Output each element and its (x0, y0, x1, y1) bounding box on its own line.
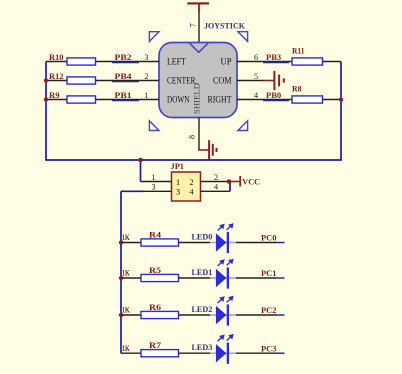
wire bus to R7 (121, 352, 142, 354)
power port VCC (229, 176, 241, 186)
wire PB2 row (46, 62, 159, 63)
corner marker bottom-left (149, 121, 159, 131)
LED LED1 (210, 260, 236, 289)
wire LED1 to PC1 (236, 277, 285, 279)
corner marker bottom-right (238, 121, 248, 131)
svg-text:1K: 1K (122, 344, 130, 353)
svg-text:PC3: PC3 (261, 344, 277, 353)
resistor R10 (67, 58, 96, 65)
wire SHIELD pin 8 (198, 118, 200, 151)
svg-text:R11: R11 (292, 47, 305, 56)
svg-text:PB2: PB2 (115, 53, 132, 62)
wire LED3 to PC3 (236, 352, 285, 354)
svg-text:1K: 1K (122, 233, 130, 242)
svg-text:JP1: JP1 (171, 162, 185, 171)
junction dot VCC node (227, 179, 232, 184)
svg-text:2: 2 (214, 173, 218, 182)
junction dot LED bus R6 (119, 313, 123, 317)
connector JP1 (172, 172, 201, 201)
wire left bus (45, 62, 47, 161)
wire R4 to LED0 (179, 242, 212, 244)
ground at COM pin 5 (263, 71, 285, 90)
LED LED0 (210, 224, 236, 253)
wire R5 to LED1 (179, 277, 212, 279)
wire R7 to LED3 (179, 352, 212, 354)
svg-text:COM: COM (213, 76, 232, 86)
wire JP1 pin1 riser (140, 160, 142, 182)
wire PB4 row (46, 81, 159, 82)
svg-text:R5: R5 (149, 266, 161, 275)
resistor R8 (292, 96, 323, 103)
svg-text:4: 4 (254, 91, 258, 100)
wire bus to R6 (121, 314, 142, 316)
svg-text:PC0: PC0 (261, 234, 277, 243)
corner marker top-right (238, 32, 248, 42)
svg-text:RIGHT: RIGHT (208, 95, 232, 105)
svg-text:LED3: LED3 (192, 343, 213, 352)
resistor R11 (292, 58, 323, 65)
svg-text:LEFT: LEFT (167, 57, 186, 67)
wire main net horizontal (45, 159, 342, 161)
svg-text:DOWN: DOWN (167, 95, 190, 105)
svg-text:JOYSTICK: JOYSTICK (204, 20, 245, 30)
resistor R7 (141, 350, 179, 357)
svg-text:R6: R6 (149, 303, 161, 312)
svg-text:2: 2 (144, 72, 148, 81)
svg-text:1: 1 (144, 91, 148, 100)
resistor R4 (141, 239, 179, 246)
svg-text:R10: R10 (49, 53, 64, 62)
svg-text:SHIELD: SHIELD (192, 83, 202, 114)
svg-text:PB3: PB3 (266, 53, 281, 62)
svg-text:LED0: LED0 (192, 232, 213, 241)
svg-text:R9: R9 (49, 91, 60, 100)
svg-text:3: 3 (151, 183, 155, 192)
junction dot LED bus R4 (119, 240, 123, 244)
wire bus to R5 (121, 277, 142, 279)
wire pin4 riser (229, 182, 231, 192)
resistor R12 (67, 77, 96, 84)
wire right bus (340, 62, 342, 161)
svg-text:PB0: PB0 (266, 91, 281, 100)
wire COM pin 5 (237, 80, 263, 82)
svg-text:1K: 1K (122, 269, 130, 278)
ground at SHIELD pin 8 (198, 140, 217, 159)
svg-text:5: 5 (254, 72, 258, 81)
svg-text:PB4: PB4 (115, 72, 133, 81)
wire R6 to LED2 (179, 314, 212, 316)
resistor R9 (67, 96, 96, 103)
svg-text:1K: 1K (122, 306, 130, 315)
wire LED0 to PC0 (236, 242, 285, 244)
svg-text:7: 7 (188, 23, 197, 27)
svg-text:R7: R7 (149, 341, 161, 350)
wire pin 7 (198, 12, 200, 43)
svg-text:2: 2 (190, 178, 194, 187)
svg-text:1: 1 (151, 173, 155, 182)
wire PB1 row (46, 100, 159, 101)
wire UP row (237, 62, 341, 63)
svg-text:LED1: LED1 (192, 268, 213, 277)
resistor R5 (141, 274, 179, 281)
wire JP1 pin 3 (121, 190, 172, 192)
junction dot LED bus R5 (119, 276, 123, 280)
wire JP1 pin 1 (141, 181, 172, 183)
junction dot main net / JP1 (138, 158, 143, 163)
svg-text:3: 3 (176, 188, 180, 197)
svg-text:3: 3 (144, 53, 148, 62)
wire JP1 pin 4 (201, 190, 231, 192)
corner marker top-left (149, 32, 159, 42)
LED LED2 (210, 297, 236, 326)
svg-text:VCC: VCC (242, 176, 260, 186)
svg-text:4: 4 (190, 188, 194, 197)
joystick JOYSTICK body (159, 43, 237, 118)
svg-text:8: 8 (188, 135, 197, 139)
svg-text:PC1: PC1 (261, 269, 277, 278)
power bar (pin 7 supply) (187, 2, 209, 11)
wire bus to R4 (121, 242, 142, 244)
resistor R6 (141, 311, 179, 318)
svg-text:LED2: LED2 (192, 305, 213, 314)
junction dot left bus y=99.5 (44, 97, 48, 101)
svg-text:PB1: PB1 (115, 91, 132, 100)
wire RIGHT row (237, 100, 341, 101)
svg-text:R12: R12 (49, 72, 64, 81)
svg-text:4: 4 (214, 183, 218, 192)
svg-text:UP: UP (221, 57, 232, 67)
wire LED2 to PC2 (236, 314, 285, 316)
wire LED bus (120, 191, 122, 353)
svg-text:1: 1 (176, 178, 180, 187)
svg-text:R4: R4 (149, 230, 162, 239)
LED LED3 (210, 335, 236, 364)
wire JP1 pin 2 (201, 181, 230, 183)
junction dot right bus (339, 97, 343, 101)
svg-text:R8: R8 (292, 85, 302, 94)
junction dot left bus y=80.5 (44, 78, 48, 82)
svg-text:PC2: PC2 (261, 306, 277, 315)
svg-text:6: 6 (254, 53, 258, 62)
